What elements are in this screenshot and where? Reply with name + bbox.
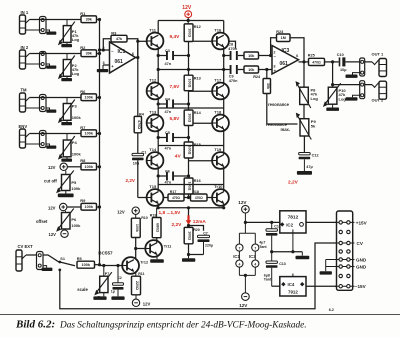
- svg-text:P4: P4: [72, 140, 78, 145]
- svg-text:T14: T14: [149, 147, 157, 152]
- svg-text:39k: 39k: [266, 83, 270, 89]
- switch contact block: [37, 252, 44, 270]
- svg-text:1,8 ...1,5V: 1,8 ...1,5V: [159, 210, 182, 216]
- capacitor C13: [271, 252, 273, 261]
- wire Tr11 base to Tr12 collector: [135, 249, 137, 260]
- svg-text:6: 6: [296, 54, 298, 58]
- wire Tr12 emitter to R11: [135, 271, 137, 276]
- wire 7812 out to +15V pin: [306, 221, 337, 223]
- svg-text:IC3: IC3: [282, 48, 290, 54]
- ground CV jack: [43, 266, 47, 268]
- svg-text:10k: 10k: [248, 68, 255, 72]
- svg-text:39k: 39k: [86, 52, 93, 56]
- svg-text:R8: R8: [80, 158, 86, 163]
- svg-text:6-2: 6-2: [329, 308, 334, 312]
- wire R24 to P9 wiper: [267, 94, 298, 125]
- wire C11 to gnd line: [271, 236, 273, 252]
- svg-text:Log: Log: [72, 71, 80, 76]
- svg-text:100k: 100k: [85, 96, 94, 100]
- svg-text:7: 7: [238, 246, 240, 250]
- ground R20/C7: [188, 255, 190, 259]
- capacitor C3: [166, 51, 168, 60]
- svg-text:P5: P5: [71, 180, 77, 185]
- svg-text:C10: C10: [337, 53, 344, 57]
- svg-text:R1: R1: [80, 11, 86, 16]
- wire op-amp pins to -12V: [238, 251, 240, 260]
- ground C12: [303, 159, 305, 171]
- wire IN1 row: [30, 19, 82, 21]
- svg-text:100Ω: 100Ω: [188, 113, 192, 122]
- svg-text:scale: scale: [77, 287, 88, 292]
- op-amp IC1 supply pin 7: [236, 244, 243, 251]
- wire right chain: [223, 47, 225, 70]
- wire left chain top: [157, 21, 159, 36]
- wire C9 to R22: [238, 69, 244, 71]
- wire T16 to C8: [224, 55, 230, 57]
- svg-text:470Ω: 470Ω: [195, 196, 203, 200]
- svg-text:R9: R9: [80, 198, 86, 203]
- svg-text:680Ω: 680Ω: [156, 223, 160, 232]
- wire 12V to top rail: [187, 18, 189, 24]
- wire to OUT2: [332, 62, 334, 87]
- ground P3: [66, 120, 68, 122]
- svg-text:5k: 5k: [311, 123, 316, 128]
- svg-text:100k: 100k: [71, 223, 81, 228]
- svg-text:OUT 2: OUT 2: [372, 97, 385, 102]
- wire base T19: [189, 160, 213, 162]
- wire R20 bottom: [188, 244, 190, 255]
- wire IC4 to -15V pin: [306, 285, 337, 287]
- svg-text:T13: T13: [149, 109, 157, 114]
- svg-text:T12: T12: [149, 77, 157, 82]
- ground Tr11 emitter: [156, 254, 158, 259]
- svg-text:4: 4: [238, 262, 240, 266]
- svg-text:12mA: 12mA: [193, 219, 207, 225]
- svg-text:12V: 12V: [48, 205, 56, 210]
- potentiometer P2: [66, 54, 68, 60]
- svg-text:R7: R7: [80, 125, 86, 130]
- svg-text:12V: 12V: [117, 209, 125, 214]
- wire cap row C5: [158, 137, 166, 139]
- svg-text:R13: R13: [194, 77, 201, 81]
- wire GND pins: [326, 259, 337, 261]
- wire Tr12 base line: [100, 265, 123, 267]
- svg-text:C13: C13: [279, 262, 286, 266]
- svg-text:IN 2: IN 2: [21, 45, 29, 50]
- capacitor C4: [166, 100, 168, 109]
- svg-text:T18: T18: [214, 109, 222, 114]
- wire right chain top: [223, 21, 225, 36]
- svg-text:BC557: BC557: [98, 251, 113, 256]
- supply -12V below R11: [135, 295, 137, 299]
- svg-text:C2: C2: [117, 276, 122, 280]
- capacitor C9: [230, 65, 232, 74]
- svg-text:+15V: +15V: [356, 220, 368, 225]
- wire R19 to Tr11 collector: [156, 238, 158, 243]
- svg-text:R16: R16: [194, 179, 201, 183]
- potentiometer P10: [328, 87, 337, 104]
- svg-text:12V: 12V: [182, 5, 192, 11]
- wire R5 to bus: [95, 264, 100, 266]
- svg-text:Tant: Tant: [259, 245, 267, 249]
- wire R7 to bus: [97, 133, 100, 135]
- svg-text:9,4V: 9,4V: [170, 34, 181, 40]
- potentiometer P9 resonance max: [300, 119, 309, 136]
- svg-text:OUT 1: OUT 1: [372, 52, 385, 57]
- wire R17-R18 node: [184, 197, 191, 199]
- wire 7812 gnd: [292, 233, 294, 252]
- wire CV to connector: [60, 243, 337, 309]
- svg-text:resonance: resonance: [268, 102, 290, 107]
- wire base T17: [189, 90, 213, 92]
- ground P7: [103, 293, 105, 297]
- wire cap row C3: [158, 55, 166, 57]
- wire to R9: [67, 206, 81, 208]
- potentiometer P1: [66, 20, 68, 26]
- wire R6 to bus: [97, 97, 100, 99]
- wire R12 to R13: [188, 42, 190, 76]
- svg-text:T17: T17: [214, 77, 222, 82]
- jack OUT 2: [372, 83, 379, 88]
- svg-text:7812: 7812: [288, 214, 299, 220]
- svg-text:470n: 470n: [228, 47, 237, 51]
- wire R4 to C1: [137, 133, 139, 154]
- capacitor C7 220u: [189, 226, 204, 231]
- svg-text:470n: 470n: [229, 79, 238, 83]
- svg-text:12V: 12V: [48, 165, 56, 170]
- wire base T16: [189, 40, 213, 42]
- svg-text:47n: 47n: [165, 147, 172, 151]
- svg-text:GND: GND: [356, 258, 367, 263]
- op-amp IC3 supply pin 7: [252, 244, 259, 251]
- wire IC1 pin3: [103, 64, 110, 66]
- svg-text:47µ: 47µ: [306, 165, 312, 169]
- wire cap row C6: [158, 175, 166, 177]
- wire P9 to C12: [303, 136, 305, 153]
- wire R21 to IC3 pin2: [259, 55, 273, 57]
- svg-text:R25: R25: [308, 54, 315, 58]
- svg-text:Tr11: Tr11: [164, 244, 172, 248]
- svg-text:47k: 47k: [116, 37, 123, 41]
- caption rule: [0, 314, 400, 316]
- wire base T18: [189, 122, 213, 124]
- wire cap row C4: [158, 103, 166, 105]
- wire R15 to R16: [188, 158, 190, 178]
- wire R24 top: [266, 70, 268, 79]
- svg-text:CV EXT: CV EXT: [18, 244, 34, 249]
- wire IN2 row: [30, 53, 82, 55]
- capacitor C8: [230, 51, 232, 60]
- voltage regulator IC2 7812: [280, 211, 306, 233]
- svg-text:Log: Log: [339, 97, 347, 102]
- svg-text:10k: 10k: [248, 54, 255, 58]
- svg-text:220Ω: 220Ω: [135, 281, 139, 290]
- svg-text:C6: C6: [165, 169, 170, 173]
- wire T11 base: [138, 40, 148, 42]
- svg-text:12V: 12V: [49, 232, 57, 237]
- svg-text:−15V: −15V: [355, 284, 367, 289]
- wire ENV row: [30, 133, 82, 135]
- svg-text:IC4: IC4: [288, 282, 295, 287]
- svg-text:Log: Log: [72, 37, 80, 42]
- svg-text:R10: R10: [141, 216, 148, 220]
- capacitor C2: [117, 266, 119, 283]
- svg-text:IN 1: IN 1: [21, 10, 29, 15]
- wire P8 to P9: [303, 105, 305, 119]
- svg-text:P6: P6: [71, 217, 77, 222]
- voltage regulator IC4 7912: [280, 277, 306, 296]
- svg-text:470Ω: 470Ω: [312, 60, 321, 64]
- svg-text:061: 061: [115, 59, 124, 65]
- svg-text:GND: GND: [356, 265, 367, 270]
- svg-text:12V: 12V: [238, 200, 247, 205]
- ground C2: [117, 290, 119, 297]
- svg-text:4: 4: [254, 262, 256, 266]
- ground power: [301, 252, 303, 256]
- svg-text:47n: 47n: [165, 110, 172, 114]
- wire R10 to Tr11 base: [135, 238, 137, 249]
- svg-text:100k: 100k: [71, 186, 81, 191]
- svg-text:100k: 100k: [72, 115, 82, 120]
- svg-text:IC1: IC1: [118, 49, 126, 55]
- svg-text:100k: 100k: [85, 205, 94, 209]
- wire bus to IC1 pin2: [100, 49, 110, 51]
- svg-text:R6: R6: [80, 89, 86, 94]
- svg-text:061: 061: [280, 61, 289, 67]
- svg-text:100Ω: 100Ω: [188, 146, 192, 155]
- wire stage line 4: [158, 184, 224, 186]
- wire IC3 output: [299, 61, 309, 63]
- svg-text:47n: 47n: [165, 180, 172, 184]
- svg-text:C3: C3: [165, 49, 170, 53]
- svg-text:Tant: Tant: [264, 278, 272, 282]
- svg-text:47n: 47n: [165, 62, 172, 66]
- wire R25 to C10: [325, 61, 339, 63]
- wire gnd line: [272, 251, 303, 253]
- svg-text:cut off: cut off: [44, 179, 57, 184]
- wire R22 to IC3 pin3: [259, 69, 273, 71]
- wire ladder top rail: [158, 20, 224, 22]
- wire R16 to R17/R18 node: [188, 194, 190, 198]
- ground P10: [332, 104, 334, 107]
- svg-text:TM: TM: [21, 88, 28, 93]
- svg-text:39k: 39k: [86, 18, 93, 22]
- ground P1: [66, 42, 68, 44]
- ground P2: [66, 76, 68, 78]
- svg-text:IC2: IC2: [286, 222, 293, 227]
- wire C1 to T15 base: [137, 160, 139, 197]
- svg-text:10µ: 10µ: [340, 68, 346, 72]
- svg-text:1µ: 1µ: [111, 290, 115, 294]
- potentiometer P4: [66, 134, 68, 141]
- svg-text:2,2V: 2,2V: [288, 180, 299, 186]
- svg-text:100Ω: 100Ω: [188, 79, 192, 88]
- wire T15 to R17: [163, 197, 168, 199]
- capacitor C11: [271, 222, 273, 228]
- resistor R21: [244, 52, 259, 59]
- wire R2 to bus: [97, 53, 100, 55]
- svg-text:470Ω: 470Ω: [137, 120, 141, 129]
- op-amp IC1 061: [110, 42, 136, 73]
- wire stage line 2: [158, 107, 224, 109]
- svg-text:100k: 100k: [85, 165, 94, 169]
- svg-text:ENV: ENV: [19, 124, 28, 129]
- svg-text:2,2V: 2,2V: [126, 178, 136, 183]
- wire R3 right to IC1 output node: [127, 39, 138, 58]
- svg-text:100Ω: 100Ω: [188, 231, 192, 240]
- capacitor C6: [166, 172, 168, 181]
- wire IC1 output down to R4: [137, 39, 139, 117]
- ground IC1 pin3: [102, 65, 104, 69]
- wire R1 to bus: [97, 19, 100, 21]
- svg-text:CV: CV: [357, 241, 364, 246]
- svg-text:12V: 12V: [239, 303, 248, 308]
- svg-text:470Ω: 470Ω: [172, 196, 180, 200]
- svg-text:1M: 1M: [281, 36, 286, 40]
- resistor R22: [244, 66, 259, 73]
- potentiometer P5 cut off: [65, 171, 67, 175]
- wire 12V to 7812 line: [244, 213, 246, 222]
- wire T16 collector stub right: [229, 41, 236, 48]
- wire T-chain to C9: [224, 69, 230, 71]
- capacitor C5: [166, 133, 168, 142]
- wire 12V to op-amp pins: [244, 222, 246, 233]
- svg-text:C5: C5: [165, 131, 170, 135]
- op-amp IC3 supply pin 4: [252, 260, 259, 267]
- potentiometer P8 resonance: [300, 87, 309, 104]
- wire IC3 out down to P8: [303, 62, 305, 87]
- wire C13 to IC4: [271, 268, 273, 286]
- svg-text:100k: 100k: [85, 132, 94, 136]
- svg-text:6: 6: [132, 52, 134, 56]
- svg-text:P3: P3: [72, 104, 78, 109]
- svg-text:R24: R24: [253, 75, 261, 79]
- svg-text:T16: T16: [214, 27, 222, 32]
- svg-text:2,2V: 2,2V: [172, 222, 183, 228]
- wire R23 left: [271, 38, 277, 56]
- wire C8 to R21: [238, 55, 244, 57]
- svg-text:T19: T19: [214, 147, 222, 152]
- potentiometer P3: [66, 98, 68, 104]
- potentiometer P6 offset: [65, 211, 67, 213]
- svg-text:4V: 4V: [175, 154, 182, 160]
- ground P5: [65, 191, 67, 194]
- svg-text:100Ω: 100Ω: [188, 28, 192, 37]
- ground GND pins: [320, 271, 332, 274]
- wire to R8: [67, 166, 81, 168]
- svg-text:Tr12: Tr12: [140, 260, 148, 264]
- wire C10 to OUT1: [345, 61, 372, 63]
- wire R13 to R14: [188, 91, 190, 110]
- svg-text:R11: R11: [138, 272, 144, 276]
- op-amp IC1 supply pin 4: [236, 260, 243, 267]
- svg-text:S1: S1: [60, 257, 65, 261]
- svg-text:12V: 12V: [143, 301, 151, 306]
- wire emitter line 1.8-1.5V: [157, 207, 224, 209]
- svg-text:R14: R14: [194, 111, 202, 115]
- svg-text:100Ω: 100Ω: [188, 182, 192, 191]
- svg-text:7,6V: 7,6V: [170, 84, 181, 90]
- svg-text:R20: R20: [193, 228, 200, 232]
- wire left chain: [157, 47, 159, 70]
- wire R18 to Tr10 base: [207, 197, 212, 199]
- wire R3 left to pin2: [103, 39, 111, 50]
- svg-text:max.: max.: [281, 127, 291, 132]
- svg-text:offset: offset: [36, 219, 48, 224]
- wire node to R20 with 12mA arrow: [188, 208, 190, 228]
- supply -12V main: [242, 293, 250, 301]
- svg-text:C12: C12: [312, 153, 319, 157]
- op-amp IC3 061: [272, 46, 299, 75]
- wire CV EXT tip: [26, 255, 59, 262]
- svg-text:Das Schaltungsprinzip entspric: Das Schaltungsprinzip entspricht der 24-…: [59, 320, 307, 330]
- wire R14 to R15: [188, 126, 190, 143]
- svg-text:C8: C8: [228, 43, 233, 47]
- svg-text:Log: Log: [311, 96, 319, 101]
- connector header: [337, 211, 353, 290]
- ground P4: [66, 157, 68, 159]
- svg-text:7912: 7912: [288, 290, 298, 295]
- svg-text:T15: T15: [149, 184, 157, 189]
- supply -12V below P6: [64, 229, 66, 230]
- svg-text:100k: 100k: [72, 152, 82, 157]
- wire stage line 3: [158, 145, 224, 147]
- bus node vertical wire: [99, 20, 101, 266]
- wire R23 right to output: [290, 38, 304, 62]
- wire R8 to bus: [97, 166, 100, 168]
- svg-text:R2: R2: [80, 45, 86, 50]
- svg-text:C11: C11: [274, 224, 280, 228]
- svg-text:R12: R12: [194, 25, 201, 29]
- svg-text:100k: 100k: [82, 263, 91, 267]
- wire stage line 1: [158, 69, 224, 71]
- svg-text:5,8V: 5,8V: [170, 116, 181, 122]
- svg-text:100k: 100k: [135, 224, 139, 232]
- svg-text:T11: T11: [149, 27, 156, 32]
- svg-text:C9: C9: [229, 75, 234, 79]
- wire TM row: [30, 97, 82, 99]
- svg-text:220µ: 220µ: [205, 244, 213, 248]
- wire R9 to bus: [97, 206, 100, 208]
- svg-text:Bild 6.2:: Bild 6.2:: [15, 319, 55, 331]
- svg-text:7: 7: [254, 246, 256, 250]
